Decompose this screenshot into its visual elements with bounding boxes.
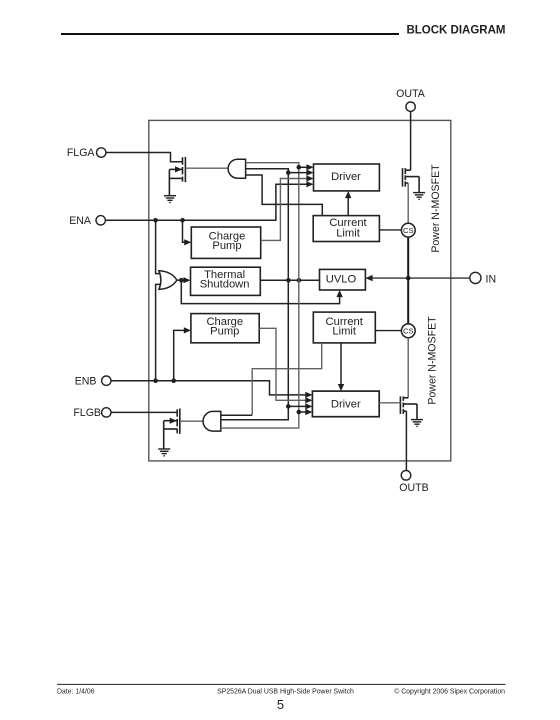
wire OR output down to UVLO bottom input bbox=[181, 280, 339, 303]
wire OR input 1 (from ENA) bbox=[156, 220, 163, 273]
wire AND-A middle input / TS bus bbox=[221, 169, 288, 420]
svg-text:CS: CS bbox=[403, 226, 414, 235]
svg-text:Power N-MOSFET: Power N-MOSFET bbox=[427, 316, 439, 405]
gate AND-B (3-input, pointing left) bbox=[203, 411, 221, 431]
node ENB dot 2 bbox=[171, 378, 176, 383]
svg-text:Shutdown: Shutdown bbox=[200, 279, 250, 291]
svg-text:IN: IN bbox=[486, 273, 497, 285]
wire AND-B top input from CL-B link bbox=[221, 414, 252, 416]
wire Current Limit A to CS A bbox=[379, 229, 401, 231]
svg-text:Pump: Pump bbox=[212, 240, 241, 252]
svg-text:Driver: Driver bbox=[331, 171, 361, 183]
wire bus to Driver B input 4 bbox=[299, 411, 309, 413]
box Charge Pump A bbox=[191, 227, 260, 258]
svg-text:5: 5 bbox=[277, 697, 284, 712]
wire AND-A bottom input to CL-A top bbox=[246, 175, 323, 216]
wire Q2 gate to AND-B output bbox=[180, 420, 206, 422]
ground (M1 bulk) bbox=[413, 193, 425, 200]
box Charge Pump B bbox=[191, 314, 259, 343]
pin ENA bbox=[69, 215, 105, 227]
wire OR input 2 (to ENB) bbox=[156, 284, 163, 380]
node ENB dot 1 bbox=[153, 378, 158, 383]
gate AND-A (3-input, pointing left) bbox=[228, 159, 246, 178]
wire CL-B bottom link to AND-B top input (grey) bbox=[252, 343, 322, 415]
node IN junction bbox=[406, 276, 411, 281]
node ENA dot 2 bbox=[180, 218, 185, 223]
wire Thermal Shutdown to UVLO bbox=[260, 279, 319, 281]
wire ENB branch to Charge Pump B with arrow bbox=[174, 330, 188, 380]
wire ENA branch to Charge Pump A with arrow bbox=[183, 220, 188, 242]
footer rule bbox=[57, 683, 506, 685]
svg-text:Driver: Driver bbox=[331, 399, 361, 411]
box UVLO bbox=[320, 269, 366, 290]
ground (Q2 source) bbox=[158, 449, 170, 456]
node dot TS line 1 bbox=[286, 278, 291, 283]
wire bus to Driver A input 1 bbox=[299, 166, 310, 168]
wire AND-A top input / UVLO bus (grey) bbox=[221, 163, 299, 428]
node ENA dot 1 bbox=[153, 218, 158, 223]
gate OR (enable OR) bbox=[159, 271, 177, 290]
wire ENA bbox=[105, 184, 309, 220]
svg-text:Limit: Limit bbox=[336, 227, 361, 239]
wire Current Limit B down-arrow to Driver B bbox=[340, 343, 342, 388]
box Current Limit A bbox=[313, 216, 379, 242]
wire bus to Driver A input 2 bbox=[288, 172, 310, 174]
box Driver A bbox=[314, 164, 380, 191]
svg-text:Limit: Limit bbox=[332, 326, 357, 338]
svg-text:UVLO: UVLO bbox=[326, 274, 357, 286]
box Thermal Shutdown bbox=[191, 267, 261, 295]
wire Charge Pump A output to Driver A input 3 (grey) bbox=[261, 179, 310, 241]
transistor M1 power N-MOSFET A bbox=[403, 168, 420, 192]
transistor Q1 (FLGA open-drain NMOS) bbox=[169, 157, 185, 196]
transistor Q2 (FLGB open-drain NMOS) bbox=[164, 409, 180, 449]
svg-text:SP2526A Dual USB High-Side Pow: SP2526A Dual USB High-Side Power Switch bbox=[217, 689, 354, 696]
svg-text:OUTB: OUTB bbox=[399, 482, 428, 494]
wire Q1 gate to AND-A output bbox=[185, 167, 230, 169]
pin OUTA bbox=[396, 88, 426, 111]
pin FLGA bbox=[67, 147, 106, 159]
arrow Driver A input 4 head (ENA) bbox=[306, 181, 313, 187]
wire FLGA to Q1 drain bbox=[106, 153, 183, 162]
wire Current Limit A up-arrow to Driver A bbox=[347, 194, 349, 216]
wire Driver B output to M2 gate (grey) bbox=[379, 402, 400, 404]
arrow Driver B input 1 head (ENB) bbox=[305, 392, 312, 398]
svg-text:Pump: Pump bbox=[210, 326, 239, 338]
svg-text:ENB: ENB bbox=[75, 376, 97, 388]
wire OUTB bbox=[405, 411, 407, 470]
wire ENB bbox=[111, 381, 308, 395]
node dot TS line 2 bbox=[297, 278, 302, 283]
wire CS A to IN junction (thick) bbox=[407, 237, 409, 324]
wire M1 source to CS A (grey) bbox=[407, 183, 409, 224]
wire CS B to M2 source (grey) bbox=[407, 338, 409, 398]
node CS B bbox=[401, 324, 415, 338]
pin ENB bbox=[75, 376, 111, 388]
header rule bbox=[61, 33, 399, 35]
node CS A bbox=[401, 223, 415, 237]
svg-text:FLGB: FLGB bbox=[73, 407, 101, 419]
svg-text:Date: 1/4/06: Date: 1/4/06 bbox=[57, 689, 95, 696]
pin IN bbox=[470, 272, 496, 285]
transistor M2 power N-MOSFET B bbox=[400, 396, 417, 419]
wire FLGB to Q2 drain bbox=[111, 411, 177, 413]
wire IN line with left arrow into UVLO bbox=[368, 277, 470, 279]
svg-text:© Copyright 2006 Sipex Corpora: © Copyright 2006 Sipex Corporation bbox=[394, 688, 505, 696]
box Driver B bbox=[312, 391, 379, 417]
svg-text:CS: CS bbox=[403, 327, 414, 336]
ground (Q1 source) bbox=[164, 196, 176, 203]
wire Charge Pump B output to Driver B input 2 (grey) bbox=[259, 328, 308, 400]
wire Current Limit B to CS B bbox=[375, 330, 401, 332]
wire OR output to Thermal Shutdown with arrow bbox=[177, 279, 187, 281]
svg-text:ENA: ENA bbox=[69, 215, 92, 227]
wire bus to Driver B input 3 bbox=[288, 405, 309, 407]
pin OUTB bbox=[399, 471, 428, 495]
svg-text:FLGA: FLGA bbox=[67, 147, 96, 159]
svg-text:OUTA: OUTA bbox=[396, 88, 426, 100]
IC boundary box bbox=[149, 120, 451, 461]
pin FLGB bbox=[73, 407, 111, 419]
svg-text:BLOCK DIAGRAM: BLOCK DIAGRAM bbox=[406, 25, 505, 37]
box Current Limit B bbox=[313, 312, 375, 343]
ground (M2 bulk) bbox=[411, 420, 423, 427]
svg-text:Power N-MOSFET: Power N-MOSFET bbox=[430, 164, 442, 253]
node OR output junction bbox=[179, 278, 184, 283]
wire OUTA bbox=[410, 111, 412, 170]
